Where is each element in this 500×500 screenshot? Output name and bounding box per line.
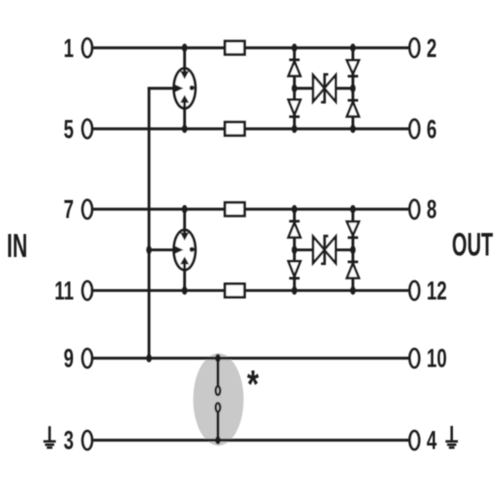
svg-text:5: 5 [64, 115, 74, 144]
svg-text:OUT: OUT [452, 227, 494, 263]
junction line-bottom/GDT ch2 [182, 286, 187, 294]
spark-gap highlight ellipse (optional element marking) [193, 353, 243, 445]
svg-text:4: 4 [427, 426, 438, 455]
wire line 1-2 [92, 46, 410, 49]
wire vertical feed from GDT ch1 down to line 9 [148, 87, 151, 358]
resistor decoupling bottom ch1 [225, 122, 245, 135]
wire GDT feed arm ch1 [148, 87, 172, 90]
terminal 2 (right) [410, 39, 420, 57]
diode left-top ch1 [288, 60, 300, 76]
terminal 6 (right) [410, 120, 420, 138]
resistor decoupling top ch2 [225, 203, 245, 216]
resistor decoupling bottom ch2 [225, 284, 245, 297]
diode left-bottom ch1 [288, 100, 300, 117]
diode right-top ch2 [347, 222, 359, 238]
junction spark gap / line 9 [215, 354, 220, 362]
wire line 7-8 [92, 208, 410, 211]
diode right-bottom ch1 [347, 100, 359, 116]
junction line-bottom/left branch ch1 [292, 125, 297, 133]
terminal 10 (right) [410, 349, 420, 367]
junction mid/right branch ch2 [350, 246, 355, 254]
svg-text:IN: IN [7, 227, 28, 264]
wire diode branch right ch2 [351, 209, 354, 290]
isolating spark gap electrode lower [216, 403, 221, 412]
diode right-bottom ch2 [347, 262, 359, 278]
junction line-top/GDT ch2 [182, 205, 187, 213]
ground symbol left (terminal 3) [43, 426, 55, 447]
diode right-top ch1 [347, 60, 359, 76]
svg-text:6: 6 [427, 115, 437, 144]
resistor decoupling top ch1 [225, 41, 245, 54]
wire diode branch right ch1 [351, 48, 354, 129]
diode left-bottom ch2 [288, 261, 300, 278]
wire GDT feed arm ch2 [148, 248, 172, 251]
junction feed wire / GDT ch2 arm [146, 246, 151, 254]
junction line-top/right branch ch2 [350, 205, 355, 213]
junction mid/right branch ch1 [350, 84, 355, 92]
diode left-top ch2 [288, 221, 300, 237]
TVS bidirectional suppressor diode ch2 [313, 236, 336, 264]
wire line 3-4 [92, 439, 410, 442]
junction line-top/GDT ch1 [182, 44, 187, 52]
TVS bidirectional suppressor diode ch1 [313, 74, 336, 102]
junction mid/left branch ch2 [292, 246, 297, 254]
wire diode branch left ch2 [293, 209, 296, 290]
terminal 1 (left) [83, 39, 93, 57]
terminal 12 (right) [410, 281, 420, 299]
svg-text:11: 11 [55, 276, 74, 305]
junction line-top/left branch ch1 [292, 44, 297, 52]
surge arrester gas discharge tube ch2 [172, 209, 195, 290]
svg-text:2: 2 [427, 34, 437, 63]
junction mid/left branch ch1 [292, 84, 297, 92]
terminal 3 (left) [83, 431, 93, 449]
terminal 9 (left) [83, 349, 93, 367]
junction line-bottom/left branch ch2 [292, 286, 297, 294]
terminal 5 (left) [83, 120, 93, 138]
wire TVS middle link ch2 [294, 248, 353, 251]
surge arrester gas discharge tube ch1 [172, 48, 195, 129]
wire spark gap branch upper [216, 358, 219, 385]
junction line-top/left branch ch2 [292, 205, 297, 213]
ground symbol right (terminal 4) [446, 426, 458, 448]
svg-text:*: * [247, 363, 259, 407]
svg-text:10: 10 [427, 344, 447, 373]
wire line 5-6 [92, 127, 410, 130]
junction line-bottom/GDT ch1 [182, 125, 187, 133]
terminal 4 (right) [410, 431, 420, 449]
junction line-top/right branch ch1 [350, 44, 355, 52]
terminal 7 (left) [83, 200, 93, 218]
svg-text:8: 8 [427, 195, 437, 224]
svg-text:9: 9 [64, 344, 74, 373]
wire line 11-12 [92, 289, 410, 292]
svg-text:3: 3 [64, 426, 74, 455]
terminal 8 (right) [410, 200, 420, 218]
junction spark gap / line 3 [215, 436, 220, 444]
svg-text:12: 12 [427, 276, 447, 305]
svg-text:1: 1 [64, 34, 74, 63]
isolating spark gap electrode upper [216, 386, 221, 395]
junction feed wire / line 9 [146, 354, 151, 362]
junction line-bottom/right branch ch2 [350, 286, 355, 294]
wire line 9-10 [92, 357, 410, 360]
junction line-bottom/right branch ch1 [350, 125, 355, 133]
wire TVS middle link ch1 [294, 87, 353, 90]
wire diode branch left ch1 [293, 48, 296, 129]
terminal 11 (left) [83, 281, 93, 299]
svg-text:7: 7 [64, 195, 74, 224]
wire spark gap branch lower [216, 413, 219, 441]
